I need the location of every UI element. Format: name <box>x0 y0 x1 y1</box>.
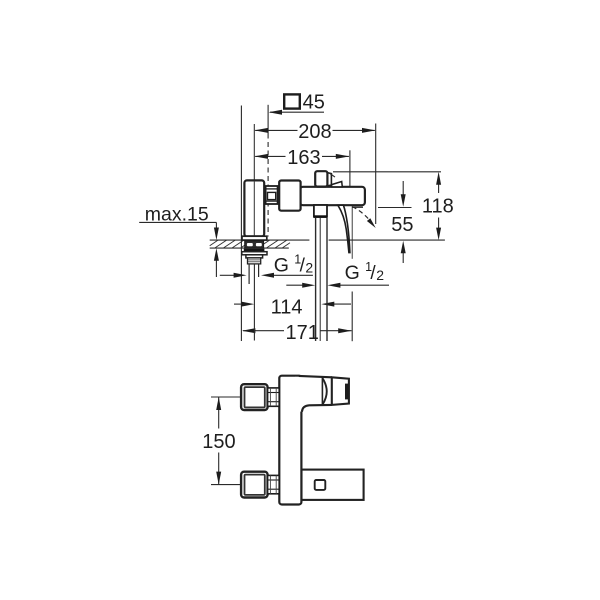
dimension 171 <box>243 330 284 332</box>
small square port <box>315 480 326 490</box>
arrow leader 45 pointing left <box>269 110 283 115</box>
hose connector below body <box>314 205 327 217</box>
centerline through leg <box>253 124 255 236</box>
supply tail pipe <box>248 264 250 284</box>
lever blade below body <box>338 205 350 252</box>
G 1/2 right <box>345 260 385 284</box>
upper connector nut <box>268 388 280 406</box>
knob side face <box>327 173 331 186</box>
deck top line <box>210 239 310 241</box>
arrow 114 right <box>321 302 334 307</box>
hatching of deck <box>210 240 290 248</box>
wire: right extension for 208 <box>375 124 377 225</box>
arrow max15 up <box>214 248 219 261</box>
svg-text:2: 2 <box>305 259 313 275</box>
bottom spout rect <box>302 470 364 500</box>
150 dimension line <box>218 397 220 429</box>
handle wedge on body <box>332 182 343 187</box>
G half right leader <box>340 284 390 286</box>
arrow 163 right <box>336 154 350 159</box>
svg-text:2: 2 <box>376 267 384 283</box>
spout body bar <box>300 187 365 205</box>
spout arm outline <box>299 376 332 377</box>
spout arm fill <box>295 377 332 412</box>
diverter knob front <box>315 171 327 186</box>
rotation dashed arc <box>352 207 369 220</box>
svg-text:118: 118 <box>422 196 454 218</box>
dark slot <box>345 384 349 400</box>
arrow 171 right <box>338 328 352 333</box>
arrow 163 left <box>254 154 268 159</box>
svg-text:45: 45 <box>303 92 325 114</box>
svg-text:114: 114 <box>271 297 303 319</box>
shower hose lines <box>315 218 317 341</box>
arrow max15 down <box>214 228 219 241</box>
arrow 208 right <box>362 128 376 133</box>
threaded shank G half <box>248 258 261 264</box>
dimension 208 <box>255 129 297 131</box>
dimension 163 <box>255 155 285 157</box>
under-deck escutcheon dark <box>245 241 264 248</box>
upper wall escutcheon <box>241 384 268 410</box>
lower connector nut <box>268 475 280 493</box>
svg-text:55: 55 <box>391 214 413 236</box>
nut band <box>246 255 263 258</box>
arrow 55 down <box>401 194 406 207</box>
arrow 118 up <box>436 172 441 185</box>
locknut <box>242 252 267 255</box>
arrow hose left pointing right <box>302 283 315 288</box>
cartridge block <box>279 181 300 211</box>
svg-text:max.15: max.15 <box>145 204 209 226</box>
wire: right extension 163/171 at x=350 <box>349 150 351 186</box>
arrow 150 down <box>216 472 221 485</box>
square 45 symbol <box>284 94 300 108</box>
dimension 114 <box>234 303 244 305</box>
flange at leg bottom <box>242 236 267 240</box>
knob diagonal pin <box>329 173 335 177</box>
connector leg-body ribbed <box>266 186 278 204</box>
body bar <box>279 376 301 505</box>
arc chord <box>321 378 323 405</box>
short line under body right <box>352 206 363 208</box>
arrow hose right pointing left (G half right) <box>327 283 340 288</box>
55 tick <box>378 207 412 209</box>
leg column <box>244 180 264 236</box>
max.15 underline <box>139 221 216 223</box>
bottom view: 150 extension lines <box>211 396 242 398</box>
118 top extension line <box>333 171 441 173</box>
max.15 arrows tails <box>215 222 217 231</box>
svg-text:171: 171 <box>286 322 319 344</box>
G half left leader <box>220 274 234 276</box>
hose width arrow tail left <box>286 284 303 286</box>
arrow 55 up <box>401 241 406 254</box>
55 arrows tails <box>402 181 404 195</box>
leader for square45 <box>270 111 324 113</box>
arrow 114 left <box>241 302 254 307</box>
G 1/2 left <box>274 252 314 276</box>
arrow 118 down <box>436 228 441 241</box>
leg centerline visible inside <box>253 181 255 236</box>
arrowheads <box>214 110 441 485</box>
svg-text:G: G <box>274 254 289 276</box>
118 dimension line <box>438 182 440 193</box>
svg-text:208: 208 <box>298 121 331 143</box>
wire: dashed centerline of connector <box>267 105 269 134</box>
svg-text:G: G <box>345 262 360 284</box>
bulge arc <box>323 378 327 404</box>
wire: extension line left of flange (171 left) <box>240 106 242 342</box>
lower wall escutcheon <box>241 472 268 498</box>
arrow G half left <box>234 273 247 278</box>
spout cap <box>332 377 349 405</box>
dark band below deck <box>244 249 265 252</box>
deck bottom line <box>210 247 289 249</box>
svg-text:150: 150 <box>202 431 235 453</box>
arrow 208 left <box>254 128 268 133</box>
arrow 171 left <box>242 328 256 333</box>
svg-text:163: 163 <box>287 147 320 169</box>
arrow 150 up <box>216 397 221 410</box>
